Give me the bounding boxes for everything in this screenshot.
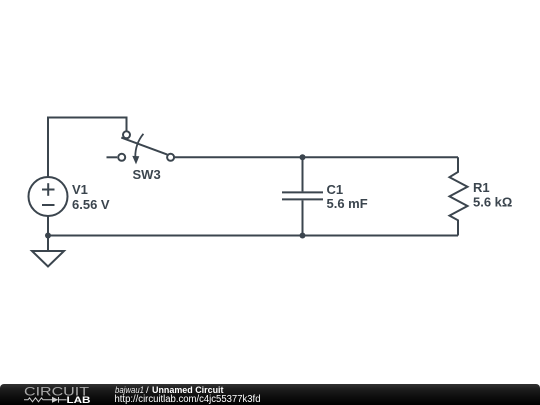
- capacitor C1: [302, 157, 304, 191]
- wire switch left stub: [107, 156, 118, 158]
- svg-text:R1: R1: [473, 180, 490, 195]
- svg-text:C1: C1: [327, 182, 344, 197]
- junction node dots: [45, 154, 306, 238]
- switch SW3 arrow: [135, 134, 143, 157]
- svg-text:6.56 V: 6.56 V: [72, 197, 110, 212]
- switch SW3 terminals: [123, 131, 130, 138]
- ground: [32, 251, 64, 267]
- switch SW3 blade: [121, 138, 167, 155]
- wire bottom rail: [48, 235, 458, 237]
- switch SW3 arrowhead: [132, 156, 139, 165]
- logo resistor-diode squiggle: [24, 397, 67, 403]
- footer bar: [0, 384, 540, 405]
- svg-text:SW3: SW3: [133, 167, 161, 182]
- wire V1 bottom to ground junction: [47, 216, 49, 251]
- svg-text:5.6 kΩ: 5.6 kΩ: [473, 195, 512, 210]
- svg-text:5.6 mF: 5.6 mF: [327, 196, 368, 211]
- wire V1 top to switch: [48, 118, 127, 179]
- voltage source V1: [29, 177, 68, 216]
- wire top rail switch to resistor: [175, 156, 459, 158]
- labels: [72, 167, 512, 212]
- svg-text:V1: V1: [72, 182, 88, 197]
- resistor R1: [450, 157, 468, 235]
